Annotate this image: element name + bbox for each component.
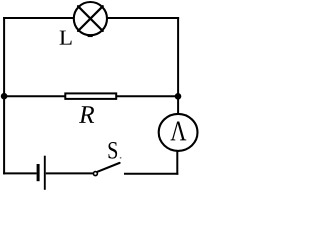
wire right vertical upper	[177, 17, 179, 114]
battery BT1 short thick plate	[37, 164, 40, 181]
lamp L1 cross lines	[78, 6, 103, 31]
wire switch to bottom-right corner	[124, 173, 178, 175]
wire middle left (node to resistor)	[4, 95, 65, 97]
resistor R body	[65, 93, 116, 99]
wire left vertical	[3, 17, 5, 174]
wire top-left horizontal	[3, 17, 73, 19]
node junction left	[1, 93, 8, 100]
ammeter U1 circle	[159, 114, 198, 151]
wire top-right horizontal	[108, 17, 180, 19]
speck near S	[120, 157, 122, 159]
node junction right	[175, 93, 182, 100]
switch S arm	[98, 163, 120, 172]
wire battery to switch	[46, 172, 93, 174]
wire bottom-left horizontal	[3, 172, 37, 174]
wire ammeter bottom vertical	[176, 151, 178, 175]
lamp L1 bulb circle	[74, 2, 107, 35]
switch S pivot circle	[93, 172, 97, 176]
label S	[108, 142, 117, 159]
battery BT1 long thin plate	[44, 156, 46, 190]
lamp L1 bottom nub	[88, 34, 93, 37]
label L	[60, 31, 72, 45]
wire middle right (resistor to right rail)	[117, 95, 178, 97]
ammeter U1 letter	[170, 122, 186, 141]
label R	[79, 106, 94, 123]
